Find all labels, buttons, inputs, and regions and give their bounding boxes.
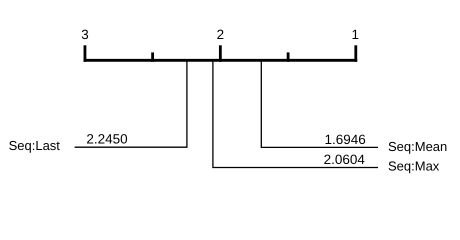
svg-text:1: 1	[351, 27, 358, 42]
svg-text:3: 3	[81, 27, 88, 42]
svg-text:Seq:Max: Seq:Max	[388, 158, 440, 173]
svg-text:2.2450: 2.2450	[86, 132, 127, 147]
svg-text:1.6946: 1.6946	[325, 132, 366, 147]
svg-text:Seq:Last: Seq:Last	[9, 138, 61, 153]
svg-text:Seq:Mean: Seq:Mean	[388, 139, 447, 154]
svg-text:2.0604: 2.0604	[324, 152, 366, 167]
svg-text:2: 2	[217, 27, 224, 42]
